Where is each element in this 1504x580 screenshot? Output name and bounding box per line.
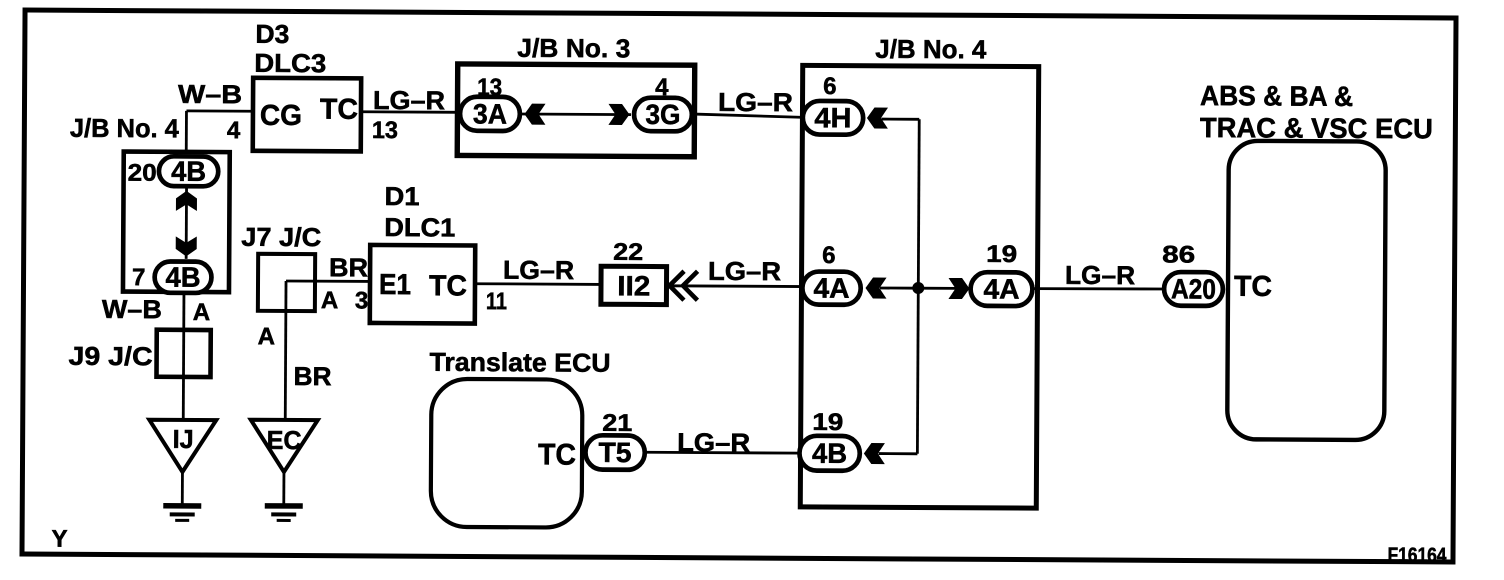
svg-text:A: A	[193, 299, 210, 326]
svg-text:6: 6	[823, 73, 837, 100]
svg-text:BR: BR	[293, 361, 331, 391]
svg-text:W–B: W–B	[178, 79, 242, 109]
arrowhead into 4H	[867, 108, 888, 129]
connector oval T5	[585, 435, 644, 470]
svg-text:E1: E1	[379, 269, 411, 301]
label pin A of J7 right	[321, 287, 338, 314]
svg-text:22: 22	[613, 239, 643, 266]
ABS ECU label line 2	[1200, 112, 1433, 144]
wire LG-R II2 to 4A left	[668, 284, 803, 288]
connector DLC1 label	[384, 212, 455, 242]
pin 6 above connector 4H	[823, 73, 837, 100]
wire BR J7 to DLC1 E1	[286, 280, 372, 283]
junction dot on bus	[912, 282, 924, 294]
svg-text:II2: II2	[617, 270, 650, 301]
connector 4B right label	[812, 438, 847, 469]
svg-text:Translate ECU: Translate ECU	[429, 347, 610, 378]
label wire color W-B	[178, 79, 242, 109]
svg-text:TC: TC	[1234, 271, 1272, 303]
label wire color LG-R 3b	[708, 256, 781, 286]
svg-text:3A: 3A	[473, 98, 507, 129]
ABS ECU label line 1	[1200, 80, 1353, 112]
svg-text:A: A	[258, 323, 275, 350]
chevron arrow 1 into II2	[669, 271, 684, 300]
label wire color LG-R 3	[503, 255, 574, 285]
svg-text:19: 19	[812, 409, 843, 436]
ground triangle EC	[250, 420, 317, 472]
connector oval 3G	[634, 98, 692, 132]
svg-text:W–B: W–B	[102, 294, 162, 324]
terminal TC of DLC3	[320, 94, 358, 126]
wire node A down to connector 4B	[185, 111, 188, 157]
svg-text:A20: A20	[1171, 273, 1216, 304]
svg-text:J9 J/C: J9 J/C	[69, 341, 153, 371]
wire LG-R 4A to A20	[1033, 288, 1164, 289]
pin 4 of DLC3 CG	[227, 117, 241, 144]
pin 86 above connector A20	[1162, 241, 1195, 268]
junction connector J7 J/C label	[241, 222, 321, 252]
wire 4A arrow to junction dot	[880, 287, 918, 290]
connector 3A label	[473, 98, 507, 129]
svg-text:LG–R: LG–R	[1065, 260, 1135, 290]
arrowhead into 4A right	[948, 278, 969, 299]
svg-text:20: 20	[128, 160, 157, 187]
wire junction dot to 4A right arrow	[918, 287, 956, 290]
connector oval A20	[1164, 272, 1223, 306]
svg-text:A: A	[321, 287, 338, 314]
connector DLC3 box	[253, 78, 361, 152]
wire inside J/B No.3 between 3A and 3G	[522, 113, 631, 116]
svg-text:LG–R: LG–R	[708, 256, 781, 286]
figure number F16164	[1387, 544, 1447, 567]
svg-text:F16164: F16164	[1387, 544, 1447, 567]
svg-text:4B: 4B	[165, 262, 200, 293]
wire EC to ground	[282, 472, 285, 506]
pin 13 above connector 3A	[477, 74, 502, 101]
wire LG-R DLC1 TC to II2	[475, 282, 601, 286]
junction block J/B No. 3 box	[457, 64, 695, 157]
svg-text:21: 21	[602, 410, 632, 437]
connector oval 4A right	[970, 272, 1032, 306]
connector A20 label	[1171, 273, 1216, 304]
svg-text:4A: 4A	[813, 273, 849, 304]
wire W-B from node A to DLC3 CG pin 4	[186, 110, 253, 113]
svg-text:TC: TC	[429, 270, 467, 302]
svg-text:J7 J/C: J7 J/C	[241, 222, 321, 252]
terminal TC of ABS ECU	[1234, 271, 1272, 303]
label wire color LG-R 5	[677, 427, 750, 457]
connector 4A right label	[983, 273, 1019, 304]
pin 7 of connector 4B bottom	[132, 264, 146, 291]
label wire color LG-R	[373, 85, 445, 115]
ground EC label	[267, 425, 302, 455]
arrowhead into 4A left	[865, 278, 886, 299]
connector DLC1 box	[370, 245, 475, 324]
connector D3 label	[255, 19, 289, 49]
terminal TC of Translate ECU	[538, 438, 576, 471]
wire IJ to ground	[181, 472, 184, 506]
svg-text:EC: EC	[267, 425, 302, 455]
terminal E1 of DLC1	[379, 269, 411, 301]
connector 4H label	[814, 102, 851, 133]
connector II2 label	[617, 270, 650, 301]
ABS & BA & TRAC & VSC ECU box	[1227, 141, 1386, 440]
ground IJ label	[173, 424, 194, 454]
pin 22 above II2	[613, 239, 643, 266]
pin 3 of DLC1 E1	[355, 287, 369, 314]
svg-text:3G: 3G	[645, 99, 680, 130]
label J/B No. 4 left	[70, 113, 180, 144]
label wire color LG-R 4	[1065, 260, 1135, 290]
svg-text:LG–R: LG–R	[677, 427, 750, 457]
connector 4B top label	[171, 156, 206, 187]
terminal TC of DLC1	[429, 270, 467, 302]
junction connector J9 J/C box	[156, 330, 210, 377]
label pin A of J7 bottom	[258, 323, 275, 350]
wire 4B bottom down to IJ	[182, 293, 186, 421]
connector 3G label	[645, 99, 680, 130]
label wire color W-B 2	[102, 294, 162, 324]
junction connector J7 J/C box	[258, 254, 315, 311]
ground triangle IJ	[149, 420, 216, 472]
svg-text:LG–R: LG–R	[718, 87, 793, 117]
wire LG-R 3G to J/B No.4 4H	[694, 114, 804, 117]
junction block J/B No.4 left box	[123, 152, 230, 293]
arrowhead into 3G	[608, 104, 629, 125]
pin 19 above connector 4A right	[986, 241, 1017, 268]
svg-text:Y: Y	[52, 526, 68, 553]
wire BR J7 down to EC	[284, 281, 288, 422]
svg-text:ABS & BA &: ABS & BA &	[1200, 80, 1353, 112]
ground symbol IJ	[163, 506, 201, 521]
svg-text:4B: 4B	[812, 438, 847, 469]
Translate ECU label	[429, 347, 610, 378]
connector 4A left label	[813, 273, 849, 304]
svg-text:IJ: IJ	[173, 424, 194, 454]
ground symbol EC	[265, 506, 303, 521]
svg-text:T5: T5	[598, 437, 631, 468]
svg-text:13: 13	[372, 117, 398, 144]
junction block J/B No. 4 right label	[875, 34, 987, 65]
arrowhead into 4B right	[864, 443, 885, 464]
svg-text:CG: CG	[260, 100, 302, 132]
terminal CG of DLC3	[260, 100, 302, 132]
pin 21 above T5	[602, 410, 632, 437]
junction connector J9 J/C label	[69, 341, 153, 371]
svg-text:DLC1: DLC1	[384, 212, 455, 242]
connector 4B bottom label	[165, 262, 200, 293]
pin 20 of connector 4B top	[128, 160, 157, 187]
arrowhead down to 4B bottom	[176, 236, 197, 256]
label wire color LG-R 2	[718, 87, 793, 117]
svg-text:J/B No. 4: J/B No. 4	[875, 34, 987, 65]
connector oval 4B bottom	[155, 261, 212, 293]
wire LG-R DLC3 TC to J/B No.3	[361, 110, 459, 113]
svg-text:J/B No. 3: J/B No. 3	[517, 33, 630, 64]
connector oval 4A left	[802, 271, 860, 304]
wire 4B arrow to bus	[879, 452, 918, 455]
svg-text:4B: 4B	[171, 156, 206, 187]
wire between 4B connectors	[185, 187, 188, 259]
connector DLC3 label	[254, 48, 326, 78]
wire LG-R T5 to 4B	[646, 451, 802, 455]
pin 11 of DLC1 TC	[486, 288, 507, 315]
connector oval 4B top	[159, 156, 218, 186]
pin 4 above connector 3G	[655, 74, 669, 101]
pin 6 above connector 4A left	[822, 242, 836, 269]
wire 4H arrow to bus	[881, 118, 919, 121]
svg-text:4H: 4H	[814, 102, 851, 133]
connector D1 label	[384, 181, 419, 211]
Translate ECU box	[431, 379, 583, 528]
arrowhead up to 4B top	[176, 191, 197, 211]
junction block J/B No. 3 label	[517, 33, 630, 64]
svg-text:19: 19	[986, 241, 1017, 268]
pin 13 of DLC3 TC	[372, 117, 398, 144]
svg-text:86: 86	[1162, 241, 1195, 268]
vertical bus wire inside J/B No.4	[917, 119, 919, 453]
svg-text:11: 11	[486, 288, 507, 315]
svg-text:TC: TC	[320, 94, 358, 126]
label wire color BR	[329, 252, 368, 282]
label wire color BR 2	[293, 361, 331, 391]
connector oval 4B right	[799, 436, 859, 471]
svg-text:LG–R: LG–R	[373, 85, 445, 115]
connector II2 box	[601, 266, 667, 304]
svg-text:6: 6	[822, 242, 836, 269]
connector T5 label	[598, 437, 631, 468]
page code Y	[52, 526, 68, 553]
svg-text:4A: 4A	[983, 273, 1019, 304]
svg-text:LG–R: LG–R	[503, 255, 574, 285]
svg-text:D1: D1	[384, 181, 419, 211]
svg-text:DLC3: DLC3	[254, 48, 326, 78]
svg-text:4: 4	[227, 117, 241, 144]
arrowhead into 3A	[524, 104, 545, 125]
junction block J/B No. 4 right box	[800, 65, 1038, 508]
svg-text:BR: BR	[329, 252, 368, 282]
connector oval 4H	[803, 101, 863, 135]
label pin A of J9	[193, 299, 210, 326]
chevron arrow 2 into II2	[683, 271, 698, 300]
svg-text:TC: TC	[538, 438, 576, 471]
svg-text:3: 3	[355, 287, 369, 314]
connector oval 3A	[460, 97, 520, 131]
svg-text:D3: D3	[255, 19, 289, 49]
pin 19 above 4B right	[812, 409, 843, 436]
svg-text:J/B No. 4: J/B No. 4	[70, 113, 180, 144]
svg-text:7: 7	[132, 264, 146, 291]
